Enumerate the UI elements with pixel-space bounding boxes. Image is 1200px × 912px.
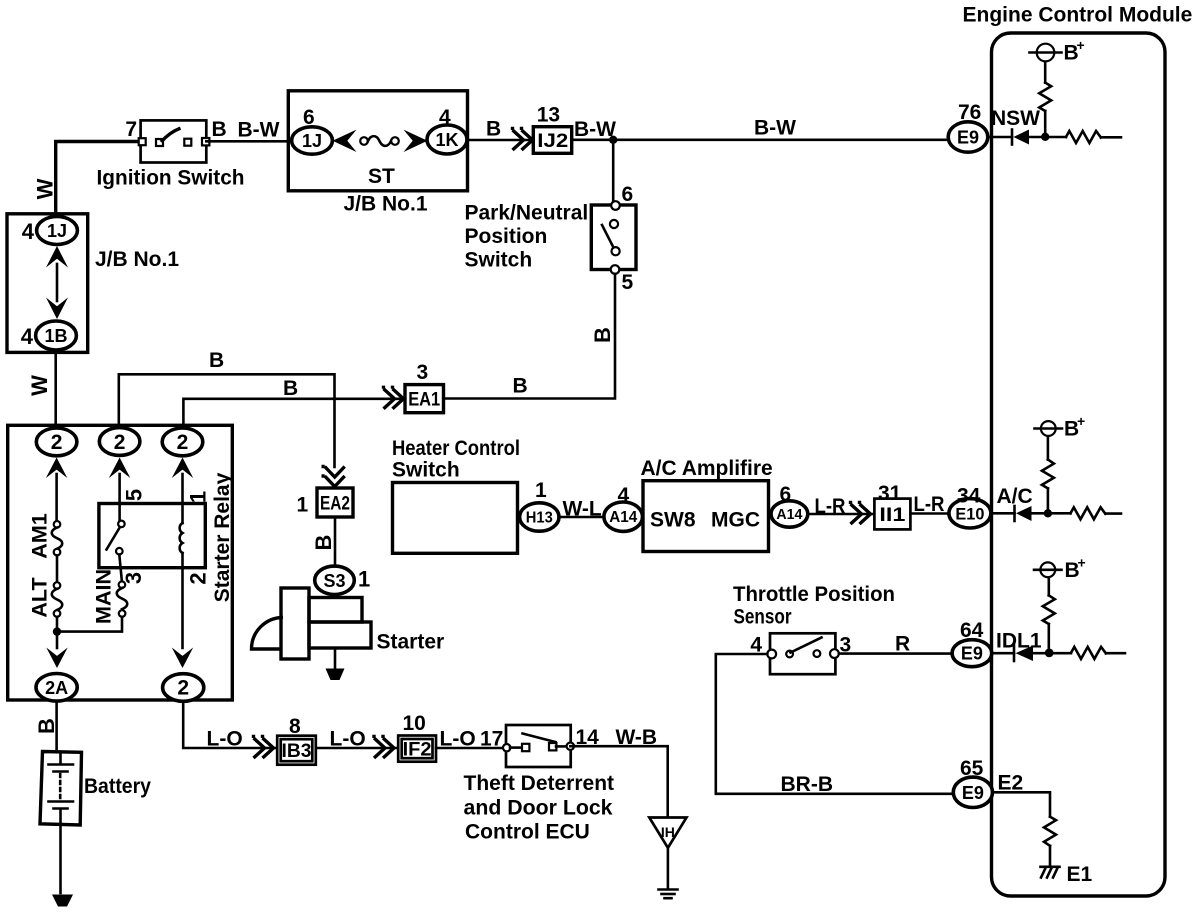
junction node A/C (1044, 509, 1052, 517)
connector E10 (949, 499, 991, 528)
svg-text:A/C: A/C (997, 485, 1033, 508)
wire junction up to pull-up resistor (1047, 488, 1050, 513)
connector 2 (bottom) (163, 674, 204, 702)
svg-text:MGC: MGC (711, 509, 760, 532)
wire A14 to II1 (808, 513, 873, 516)
starter motor nose quarter-circle (252, 618, 284, 650)
svg-text:MAIN: MAIN (92, 569, 116, 624)
svg-text:A/C Amplifire: A/C Amplifire (641, 457, 773, 480)
svg-text:A14: A14 (609, 509, 637, 526)
wire TPS 3 to ECM connector E9 64 (839, 652, 952, 655)
svg-text:IJ2: IJ2 (537, 131, 568, 152)
svg-text:L-O: L-O (330, 728, 366, 751)
ignition switch terminal squares (139, 138, 146, 145)
svg-text:Switch: Switch (465, 249, 533, 272)
wire left 2 down to AM1 fuse (55, 474, 58, 521)
svg-text:IF2: IF2 (403, 740, 432, 761)
svg-text:E9: E9 (961, 644, 983, 664)
wire into ECM logic (IDL1) (1106, 652, 1125, 655)
junction block EA1 (405, 385, 444, 413)
svg-text:E9: E9 (957, 128, 979, 148)
diode (IDL1 input) (1013, 646, 1016, 662)
svg-text:Park/Neutral: Park/Neutral (465, 202, 589, 225)
svg-text:Engine Control Module: Engine Control Module (963, 4, 1193, 27)
svg-text:B-W: B-W (754, 117, 796, 140)
wire IF2 to theft deterrent ECU (436, 747, 507, 750)
svg-text:L-R: L-R (914, 493, 945, 516)
engine control module box (992, 33, 1166, 896)
connector 1J (J/B No.1 pin 4) (37, 217, 78, 245)
svg-text:+: + (1078, 555, 1086, 571)
wire junction down to park/neutral switch (612, 140, 615, 201)
wire 2A down to battery (55, 701, 58, 752)
connector 2 (ALT feed) (36, 428, 77, 456)
diode (A/C input) (1013, 506, 1016, 521)
svg-text:E1: E1 (1067, 863, 1093, 886)
starter motor upper block (309, 598, 362, 623)
TPS terminal 3 (830, 649, 839, 658)
svg-text:Control ECU: Control ECU (465, 821, 590, 844)
junction node (ALT/MAIN) (53, 627, 61, 635)
junction block IJ2 (533, 127, 571, 154)
P/N switch lower contact (612, 247, 620, 255)
svg-text:and Door Lock: and Door Lock (464, 797, 613, 820)
diode (NSW input) (1011, 130, 1014, 145)
fuse ST left terminal (360, 137, 368, 145)
svg-text:13: 13 (537, 104, 560, 127)
harness arrow down above 2A (46, 648, 67, 669)
svg-text:B: B (311, 535, 336, 551)
TPS contact left (786, 651, 793, 658)
resistor (pull-up IDL1) (1043, 595, 1055, 624)
wire diode to resistor with junction (1029, 136, 1066, 139)
svg-text:4: 4 (21, 324, 34, 349)
svg-text:1: 1 (535, 479, 547, 502)
svg-text:5: 5 (622, 271, 634, 294)
wire II1 to E10 (910, 512, 948, 515)
svg-text:ST: ST (368, 165, 395, 188)
svg-text:H13: H13 (526, 510, 553, 527)
wire MAIN fuse to junction (61, 617, 122, 632)
wire ignition switch to J/B ST fuse (206, 140, 293, 143)
wire 1K to IJ2 (467, 139, 532, 142)
junction node on B-W wire (609, 136, 617, 144)
junction node IDL1 (1045, 649, 1054, 658)
harness arrow up below right 2 (172, 458, 193, 479)
wire E9 to diode NSW (988, 136, 1012, 139)
connector A14 (604, 502, 643, 531)
wire bottom 2 to IB3 (183, 702, 276, 749)
chevron connector into EA1 (384, 386, 404, 409)
svg-text:+: + (1077, 37, 1085, 53)
svg-text:B: B (590, 327, 615, 343)
svg-text:1J: 1J (302, 131, 322, 151)
wire right 2 down to coil (181, 474, 184, 523)
theft switch blade (523, 734, 556, 743)
wire into ECM logic (A/C) (1105, 512, 1121, 515)
svg-text:3: 3 (417, 361, 429, 384)
theft switch wire stub (510, 746, 522, 749)
resistor (series NSW) (1066, 131, 1101, 143)
harness arrow down above bottom 2 (172, 648, 193, 669)
svg-text:IH: IH (661, 824, 675, 840)
fuse ST element (368, 136, 391, 146)
wire starter relay to EA1 (183, 399, 404, 430)
fuse AM1 (54, 521, 61, 528)
wire junction up to pull-up resistor (1048, 624, 1051, 653)
A/C amplifier box (643, 481, 769, 552)
svg-text:4: 4 (22, 219, 35, 244)
svg-text:31: 31 (878, 482, 902, 505)
wire E9 65 to resistor (993, 792, 1051, 816)
relay switch lower contact (116, 548, 123, 555)
svg-text:2A: 2A (45, 678, 68, 698)
connector IH (triangle) (649, 818, 686, 848)
svg-text:Starter Relay: Starter Relay (211, 472, 234, 602)
svg-text:S3: S3 (323, 571, 345, 591)
TPS blade (791, 638, 822, 653)
svg-text:ALT: ALT (27, 577, 51, 617)
TPS contact right (814, 650, 821, 657)
svg-text:1B: 1B (44, 326, 67, 346)
wire resistor to B+ (1044, 61, 1047, 82)
relay coil (180, 523, 183, 553)
svg-text:L-O: L-O (207, 728, 243, 751)
connector 2 (relay coil feed) (162, 428, 203, 456)
ground (battery) (52, 895, 73, 907)
wire E9 to diode (bold) (992, 652, 1014, 655)
svg-text:IB3: IB3 (282, 741, 312, 762)
battery cells (59, 752, 62, 764)
svg-text:2: 2 (114, 431, 126, 454)
wire between AM1 and ALT fuses (56, 555, 59, 582)
resistor (pull-up NSW) (1039, 83, 1051, 111)
main B-W wire IJ2 to ECM connector E9 (572, 139, 949, 142)
theft switch terminal 17 (503, 744, 510, 751)
resistor (series A/C) (1071, 507, 1106, 519)
connector 2 (relay switch feed) (99, 428, 140, 456)
P/N switch blade (602, 225, 615, 250)
chevron connector into IB3 (254, 735, 274, 758)
svg-text:1: 1 (358, 567, 370, 592)
J/B No.1 box (left, connectors 1J/1B) (7, 214, 88, 353)
svg-text:2: 2 (177, 677, 189, 700)
svg-text:BR-B: BR-B (781, 773, 834, 796)
wire B from relay to EA2 (119, 374, 335, 467)
park/neutral position switch box (591, 205, 636, 270)
ground E1 (hatched) (1041, 865, 1060, 868)
wire inside J/B (56, 264, 59, 301)
wire theft switch to IH triangle (570, 746, 667, 816)
ignition switch blade (161, 128, 181, 142)
svg-text:AM1: AM1 (27, 513, 51, 558)
svg-text:Switch: Switch (392, 459, 460, 482)
heater control switch box (393, 483, 518, 554)
svg-text:Sensor: Sensor (734, 606, 792, 629)
connector A14 (right) (771, 501, 808, 527)
svg-text:2: 2 (51, 431, 63, 454)
svg-text:5: 5 (122, 489, 147, 501)
svg-text:Position: Position (465, 225, 548, 248)
svg-text:EA1: EA1 (408, 389, 440, 410)
wire diode to resistor with junction (1032, 512, 1071, 515)
svg-text:L-O: L-O (440, 728, 476, 751)
wire P/N switch 5 down and left to EA1 (444, 274, 616, 399)
svg-text:Starter: Starter (377, 631, 445, 654)
chevron connector into II1 (851, 501, 871, 524)
ground (theft deterrent) (659, 888, 678, 891)
wire into ECM logic (NSW) (1101, 136, 1121, 139)
wire TPS 4 down and right to E9 65 (716, 654, 953, 794)
svg-text:6: 6 (780, 483, 792, 506)
wire coil down to bottom 2 (181, 553, 184, 648)
svg-text:J/B No.1: J/B No.1 (95, 248, 179, 271)
wire resistor to B+ (1048, 577, 1051, 595)
svg-text:R: R (895, 633, 910, 656)
svg-text:Ignition Switch: Ignition Switch (97, 167, 245, 190)
svg-text:SW8: SW8 (650, 509, 696, 532)
fuse ST right terminal (391, 137, 399, 145)
theft switch contact left (square) (522, 744, 529, 751)
theft switch terminal 14 (567, 743, 574, 750)
svg-text:W: W (27, 375, 52, 396)
connector 1B (J/B No.1 pin 4) (36, 321, 77, 350)
svg-text:B: B (34, 718, 59, 734)
wire 1B down to starter relay box (54, 352, 57, 429)
connector H13 (520, 503, 559, 531)
svg-text:7: 7 (125, 118, 137, 141)
svg-text:1: 1 (297, 494, 309, 517)
P/N switch terminal 6 (611, 201, 620, 210)
fuse ALT (54, 582, 61, 589)
wire resistor to E1 ground (1049, 846, 1052, 867)
battery outline (40, 752, 82, 826)
connector E9 (76) (948, 122, 988, 152)
svg-text:Theft Deterrent: Theft Deterrent (464, 772, 615, 795)
ground (starter) (326, 669, 345, 681)
svg-text:2: 2 (185, 572, 210, 584)
B+ terminal (A/C) (1041, 421, 1056, 436)
starter relay inner box (99, 504, 205, 568)
svg-text:+: + (1077, 413, 1085, 429)
fuse MAIN (119, 581, 126, 588)
svg-text:B: B (283, 377, 298, 400)
svg-text:17: 17 (480, 728, 503, 751)
harness arrow up inside J/B (46, 246, 68, 268)
svg-text:E9: E9 (962, 783, 984, 803)
resistor (pull-up A/C) (1042, 460, 1054, 489)
svg-text:4: 4 (439, 106, 451, 129)
svg-text:6: 6 (622, 183, 634, 206)
theft switch wire stub right (556, 745, 567, 748)
svg-text:1J: 1J (47, 221, 67, 241)
svg-text:W: W (33, 178, 58, 199)
theft switch contact right (square) (549, 743, 556, 750)
connector E9 (64) (952, 640, 992, 667)
junction block II1 (874, 499, 910, 530)
svg-text:Throttle Position: Throttle Position (733, 583, 895, 606)
connector 1J (ST box pin 6) (292, 127, 333, 154)
svg-text:EA2: EA2 (320, 494, 350, 515)
chevron connector into IJ2 (513, 127, 533, 150)
svg-text:B: B (513, 375, 528, 398)
chevron connector into IF2 (374, 735, 394, 758)
svg-text:4: 4 (618, 484, 630, 507)
svg-text:B-W: B-W (238, 119, 280, 142)
wire E10 to diode (991, 512, 1015, 515)
harness arrow up below middle 2 (109, 458, 130, 479)
svg-text:NSW: NSW (991, 107, 1040, 130)
svg-text:B: B (212, 118, 227, 141)
junction block IF2 (398, 736, 436, 762)
wire middle 2 down into relay (118, 474, 121, 521)
resistor (E2 to E1) (1044, 817, 1056, 846)
wire battery to ground (59, 825, 62, 894)
B+ terminal (IDL1) (1040, 562, 1055, 577)
junction block EA2 (317, 488, 353, 517)
svg-text:B: B (209, 349, 224, 372)
svg-text:L-R: L-R (815, 495, 846, 518)
wire junction up to pull-up resistor (1044, 111, 1047, 137)
svg-text:1K: 1K (435, 130, 458, 150)
svg-text:2: 2 (177, 431, 189, 454)
wire H13 to A14 (559, 516, 604, 519)
B+ terminal (NSW) (1037, 44, 1055, 62)
connector S3 pin 1 (315, 566, 355, 594)
svg-text:J/B No.1: J/B No.1 (344, 193, 428, 216)
ST fuse box (J/B No.1) (288, 91, 467, 191)
harness arrow up below left 2 (46, 458, 67, 479)
svg-text:W-L: W-L (563, 498, 602, 521)
harness arrow down inside J/B (46, 298, 68, 320)
svg-text:10: 10 (403, 712, 426, 735)
svg-text:34: 34 (957, 485, 981, 508)
connector E9 (65) (953, 777, 992, 807)
relay switch blade (107, 527, 121, 550)
wire ALT fuse to 2A with junction (56, 617, 59, 648)
wire EA2 down to starter connector S3 (334, 517, 337, 566)
resistor (series IDL1) (1071, 647, 1106, 659)
throttle position sensor box (770, 633, 835, 674)
junction node NSW (1041, 133, 1049, 141)
svg-text:II1: II1 (879, 505, 906, 526)
wire IH to ground (667, 848, 670, 888)
P/N switch upper contact (610, 220, 618, 228)
connector 2A (36, 674, 77, 702)
wire W feed from J/B No.1 to Ignition Switch (56, 142, 140, 215)
svg-text:Heater Control: Heater Control (392, 437, 520, 460)
TPS terminal 4 (767, 650, 776, 659)
ignition switch IG box (141, 120, 207, 162)
harness arrow left (ST fuse) (333, 130, 357, 152)
wire resistor to B+ (1047, 436, 1050, 460)
starter motor solenoid body (281, 588, 309, 659)
starter relay outer box (8, 425, 233, 700)
wire starter to ground (334, 648, 337, 669)
wire IB3 to IF2 (316, 747, 397, 750)
chevron connector down into EA2 (322, 467, 345, 487)
svg-text:1: 1 (185, 491, 210, 503)
harness arrow right (ST fuse) (404, 130, 428, 152)
theft deterrent switch box (506, 725, 571, 767)
svg-text:IDL1: IDL1 (996, 630, 1042, 653)
P/N switch terminal 5 (611, 265, 620, 274)
relay switch upper contact (118, 521, 125, 528)
svg-text:B: B (486, 118, 501, 141)
wire relay switch to MAIN fuse (119, 555, 122, 582)
connector 1K (ST box pin 4) (427, 125, 467, 154)
svg-text:Battery: Battery (84, 775, 151, 798)
svg-text:6: 6 (303, 106, 315, 129)
svg-text:A14: A14 (776, 506, 803, 523)
starter motor lower block (309, 622, 371, 648)
wire diode to resistor with junction (bold) (1033, 652, 1071, 655)
junction block IB3 (277, 736, 316, 765)
